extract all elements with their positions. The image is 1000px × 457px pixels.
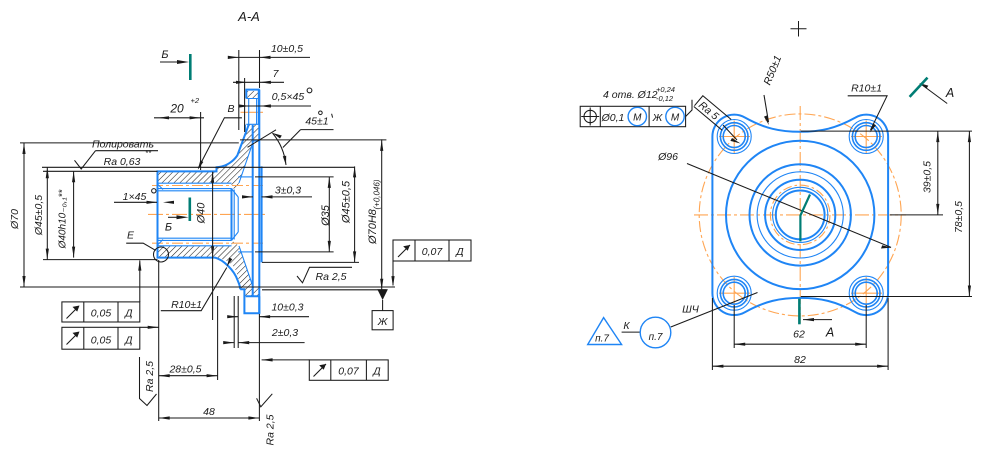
ext d35 top (255, 176, 334, 178)
svg-text:Ø35: Ø35 (320, 204, 332, 227)
triangle p7 (588, 318, 622, 345)
roughness Ra25 mid (297, 267, 352, 283)
svg-text:3±0,3: 3±0,3 (275, 185, 301, 197)
dim line 10±0.3 (228, 316, 309, 318)
ext line 2 left (233, 296, 235, 348)
arrowheads right view (712, 83, 971, 368)
svg-text:R10±1: R10±1 (851, 83, 882, 95)
ext mid right (890, 214, 943, 216)
ext line 2 right (237, 296, 239, 348)
svg-text:+2: +2 (191, 96, 200, 105)
dim 78 vertical (968, 131, 970, 296)
dim d70H8 vertical (381, 139, 383, 289)
circle r35 (765, 180, 835, 250)
leader R10 (161, 268, 227, 311)
dim 62 (734, 343, 866, 345)
dim line 3±0.3 (244, 196, 313, 198)
tolerance frame 0,05 upper (62, 261, 140, 323)
svg-text:78±0,5: 78±0,5 (953, 201, 965, 233)
svg-text:-0,12: -0,12 (656, 94, 674, 103)
angle dim lines (283, 130, 334, 148)
ext 62 left (733, 305, 735, 348)
circle r50 (750, 164, 851, 265)
hub left face (157, 171, 159, 259)
flange top rim outline (246, 89, 258, 125)
centerline lower groove (152, 242, 264, 244)
svg-text:Ø96: Ø96 (657, 151, 678, 163)
section A mark bottom teal (798, 299, 801, 325)
circle p7 (640, 317, 671, 348)
frame leader right view (686, 100, 692, 117)
leader D96 (687, 164, 891, 248)
arrows d70H8 (380, 140, 383, 290)
ext top d70 (20, 142, 239, 144)
svg-text:Ж: Ж (652, 112, 664, 124)
svg-text:(+0,046): (+0,046) (373, 179, 382, 209)
dim d35 vertical (328, 177, 330, 252)
groove walls top block (246, 99, 258, 125)
bolt cross TL (719, 121, 750, 154)
arrow frame left leader (148, 326, 159, 329)
flange right face (258, 90, 260, 314)
centerline vertical axis (799, 106, 801, 323)
arrow leader R10 (227, 257, 233, 266)
arrow leader B (198, 160, 204, 169)
dim 39 vertical (937, 131, 939, 215)
bolt cross BL (719, 277, 750, 310)
ext d35 bottom (255, 251, 334, 253)
leader R50 (764, 95, 769, 122)
svg-text:0,07: 0,07 (338, 366, 360, 378)
arrows 82 (712, 365, 888, 368)
ext line hub left face down (158, 260, 160, 421)
svg-text:Б: Б (165, 221, 172, 233)
section mark B middle (165, 198, 190, 234)
section A mark top teal (910, 78, 928, 97)
svg-text:Д: Д (124, 335, 133, 347)
arrow section A bottom (803, 318, 814, 321)
ext line 20 right (200, 112, 202, 170)
svg-text:Ra 2,5: Ra 2,5 (144, 361, 156, 392)
arrows 20 (158, 116, 201, 119)
svg-text:А-А: А-А (237, 9, 260, 24)
dim line 20 (154, 117, 204, 119)
dim 82 (712, 365, 888, 367)
svg-text:Ra 2,5: Ra 2,5 (265, 414, 277, 445)
frame leader right 0,07 (262, 359, 310, 361)
ext d45 left bottom (43, 259, 158, 261)
arrows 10±0.3 (227, 315, 270, 318)
Ra063 line (42, 166, 355, 168)
cone chamfer diagonal top (239, 141, 253, 183)
svg-text:0,5×45: 0,5×45 (272, 91, 305, 103)
arrows 62 (734, 343, 866, 346)
recess edge bottom (238, 251, 253, 253)
svg-text:А: А (825, 326, 834, 340)
section A leader bottom (803, 319, 832, 321)
svg-text:39±0,5: 39±0,5 (922, 161, 934, 193)
hub bottom face and fillet R10 (157, 258, 241, 290)
flange inner face line (252, 125, 254, 296)
arrow frame right leader (262, 358, 273, 361)
bolt boss circles TR (849, 120, 883, 154)
flange bottom rim outline (240, 289, 259, 313)
svg-text:0,05: 0,05 (91, 308, 112, 320)
cone chamfer diagonal bottom (239, 246, 253, 288)
arrows d40 bore (211, 172, 214, 257)
ext d45 right bottom (262, 261, 359, 263)
svg-text:Е: Е (127, 230, 135, 242)
svg-text:1×45: 1×45 (123, 191, 147, 203)
center mark teal (800, 195, 810, 242)
centerline main axis (148, 213, 265, 215)
bore bottom edge lines (158, 238, 232, 246)
svg-text:0,07: 0,07 (422, 246, 444, 258)
dim line 48 (159, 417, 260, 419)
arrows 2±0.3 (223, 341, 249, 344)
circle chamfer ring (773, 187, 828, 242)
bore chamfer top (158, 184, 164, 190)
ext 62 right (865, 305, 867, 348)
svg-text:Ø45±0,5: Ø45±0,5 (33, 195, 45, 236)
svg-text:45±1: 45±1 (305, 116, 328, 128)
recess wall line 2 (237, 197, 239, 232)
hub top face with step and cone face (157, 124, 249, 171)
angle arc (273, 133, 287, 165)
ext 82 left (711, 298, 713, 370)
svg-text:10±0,3: 10±0,3 (271, 302, 303, 314)
arrows d45 left (46, 167, 49, 259)
arrows 10±0.5 (228, 56, 271, 59)
position tolerance frame (580, 106, 685, 126)
plate left wall stub (244, 125, 246, 132)
dim line d40 vertical (212, 172, 214, 320)
frame leader left (140, 326, 159, 328)
dim d45 right vertical (354, 166, 356, 262)
ext 39 top (801, 130, 972, 132)
datum triangle Zh (377, 289, 388, 300)
svg-text:+0,24: +0,24 (656, 85, 675, 94)
Ra5 leader (723, 125, 737, 140)
dim line 28 (159, 375, 218, 377)
ext line 28 right (217, 296, 219, 380)
arrows 3±0.3 (242, 195, 273, 198)
centerline horizontal axis (694, 214, 906, 216)
chamfer leader 0,5x45 (242, 105, 311, 107)
arrow angle bottom (283, 156, 286, 166)
hatch top flange rim block (246, 91, 258, 99)
bolt boss circles TL (717, 120, 751, 154)
svg-text:Ra 2,5: Ra 2,5 (316, 271, 347, 283)
arrow section A top (919, 83, 928, 89)
ext line 48 right (258, 314, 260, 421)
detail circle E (154, 247, 169, 262)
groove bottom corner line (253, 140, 258, 142)
tolerance frame 0,07 right (393, 240, 471, 261)
ext line 7 (244, 78, 246, 132)
svg-text:Ra 0,63: Ra 0,63 (104, 156, 141, 168)
arrows 39 (936, 131, 939, 215)
hatch upper web section (158, 125, 259, 189)
white strip lower bore line (158, 241, 232, 246)
dim line 10±0.5 (230, 56, 310, 58)
dim d70 left vertical (23, 143, 25, 287)
polish line (96, 150, 159, 152)
circle orange inner (770, 185, 830, 245)
svg-text:Ø45±0,5: Ø45±0,5 (341, 180, 353, 224)
circle r43 (757, 172, 843, 258)
svg-text:20: 20 (169, 102, 184, 116)
bolt boss circles BR (849, 276, 883, 310)
ext line 10top b (259, 50, 261, 88)
leader B (198, 118, 242, 169)
link triangle circle (622, 331, 641, 333)
bore top edge lines (158, 183, 232, 191)
svg-text:Б: Б (161, 49, 168, 61)
dim d45 left vertical (46, 167, 48, 259)
svg-text:Ø70: Ø70 (9, 209, 21, 230)
svg-text:Д: Д (372, 366, 381, 378)
svg-text:В: В (227, 103, 234, 115)
plus mark top (791, 21, 807, 37)
leader 1x45 (114, 201, 157, 203)
ext d70 bottom datum line (20, 286, 395, 288)
arrow chamfer (239, 104, 271, 107)
centerline ring groove top (241, 111, 264, 113)
svg-text:Ж: Ж (377, 316, 389, 328)
bolt cross BR (851, 277, 882, 310)
arrow Ra5 (730, 138, 740, 144)
arrow D96 (881, 245, 892, 248)
svg-text:Д: Д (124, 308, 133, 320)
leader E (126, 243, 156, 250)
hatch lower web section (158, 240, 260, 296)
dim line 7 (233, 81, 284, 83)
svg-text:Ø40h10₋₀,₁**: Ø40h10₋₀,₁** (58, 188, 69, 249)
arrows 48 (159, 416, 260, 419)
bolt boss circles BL (717, 276, 751, 310)
svg-text:Ø40: Ø40 (196, 202, 208, 225)
svg-text:10±0,5: 10±0,5 (271, 43, 303, 55)
Ra5 slanted box (694, 96, 731, 131)
svg-text:0,05: 0,05 (91, 335, 112, 347)
ext line 10top a (238, 50, 240, 130)
ext 78 bottom (801, 296, 972, 298)
svg-text:Д: Д (455, 246, 464, 258)
svg-text:4 отв. Ø12: 4 отв. Ø12 (603, 89, 658, 101)
ext d45 left top (43, 170, 158, 172)
arrow angle top (273, 133, 282, 139)
svg-text:R10±1: R10±1 (171, 299, 202, 311)
recess wall line 1 (233, 190, 235, 240)
svg-text:Ø0,1: Ø0,1 (601, 112, 625, 124)
svg-text:М: М (671, 113, 680, 124)
bore chamfer bottom (158, 240, 164, 246)
svg-text:К: К (623, 320, 630, 332)
svg-text:2±0,3: 2±0,3 (271, 327, 298, 339)
arrow R50 (764, 115, 769, 125)
bolt cross TR (851, 121, 882, 154)
bore end wall (231, 188, 233, 240)
circle D96 bolt circle (699, 114, 901, 316)
tolerance frame 0,07 bottom (309, 360, 388, 380)
ext 82 right (887, 298, 889, 370)
ext d70H8 top (240, 139, 386, 141)
leader ShCh (671, 293, 758, 328)
roughness symbol polish (75, 151, 96, 169)
svg-text:М: М (633, 113, 642, 124)
arrow R10 (870, 124, 876, 133)
dim line 2±0.3 (226, 342, 305, 344)
svg-text:А: А (945, 86, 954, 100)
tolerance frame 0,05 lower (62, 327, 140, 349)
section mark B top (160, 49, 190, 80)
arrows d35 (328, 177, 331, 252)
centerline upper groove (152, 185, 264, 187)
leader R10 right (848, 96, 887, 130)
svg-text:48: 48 (203, 406, 215, 418)
arrowheads left view (22, 56, 394, 420)
circle boss D70 big (726, 141, 874, 289)
recess edge top (238, 176, 253, 178)
arrow frame3 down (391, 276, 394, 287)
cone extension line (248, 130, 277, 148)
arrow 1x45 (147, 201, 175, 204)
datum box Zh (372, 300, 393, 330)
white strip upper bore line (158, 183, 232, 188)
recess floor top corner (232, 189, 239, 241)
arrows d45 right (353, 166, 356, 262)
section A leader top (922, 85, 948, 104)
svg-text:Ø70Н8: Ø70Н8 (367, 208, 379, 245)
arrows 28 (159, 374, 218, 377)
svg-text:**: ** (145, 149, 152, 158)
svg-text:п.7: п.7 (595, 334, 609, 345)
boss face line (261, 166, 263, 262)
flange square outline (712, 115, 888, 315)
ext d70H8 bottom (262, 289, 387, 291)
svg-text:ШЧ: ШЧ (682, 304, 700, 316)
svg-text:62: 62 (793, 329, 805, 341)
frame3 leader down (392, 261, 394, 285)
arrows d70 (22, 143, 25, 287)
arrows 7 (236, 81, 271, 84)
arrows d40h10 (72, 171, 75, 257)
svg-text:28±0,5: 28±0,5 (168, 364, 201, 376)
arrows 78 (968, 131, 971, 296)
svg-text:п.7: п.7 (649, 332, 663, 343)
dim d40h10 vertical (73, 171, 75, 257)
svg-text:82: 82 (794, 354, 806, 366)
circle bore (776, 191, 825, 240)
